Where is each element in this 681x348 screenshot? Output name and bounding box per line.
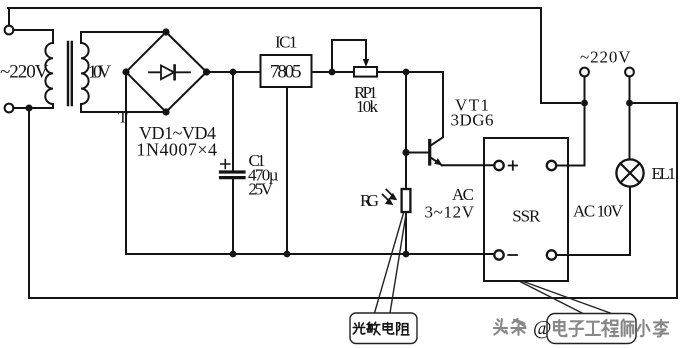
svg-text:1N4007×4: 1N4007×4 <box>137 140 218 160</box>
svg-text:3~12V: 3~12V <box>425 202 475 221</box>
svg-text:3DG6: 3DG6 <box>451 111 494 130</box>
svg-text:SSR: SSR <box>512 206 541 225</box>
svg-text:IC1: IC1 <box>275 33 298 52</box>
svg-text:25V: 25V <box>249 179 274 198</box>
svg-text:AC: AC <box>452 185 474 204</box>
svg-text:@: @ <box>533 317 551 339</box>
svg-text:RG: RG <box>360 191 379 210</box>
svg-text:AC 10V: AC 10V <box>573 201 624 220</box>
svg-text:10V: 10V <box>88 61 111 81</box>
svg-text:EL1: EL1 <box>652 164 677 183</box>
svg-text:10k: 10k <box>356 97 379 116</box>
svg-text:T: T <box>118 110 128 127</box>
svg-text:~220V: ~220V <box>0 62 49 83</box>
svg-text:7805: 7805 <box>270 62 302 83</box>
svg-text:~220V: ~220V <box>580 47 631 66</box>
